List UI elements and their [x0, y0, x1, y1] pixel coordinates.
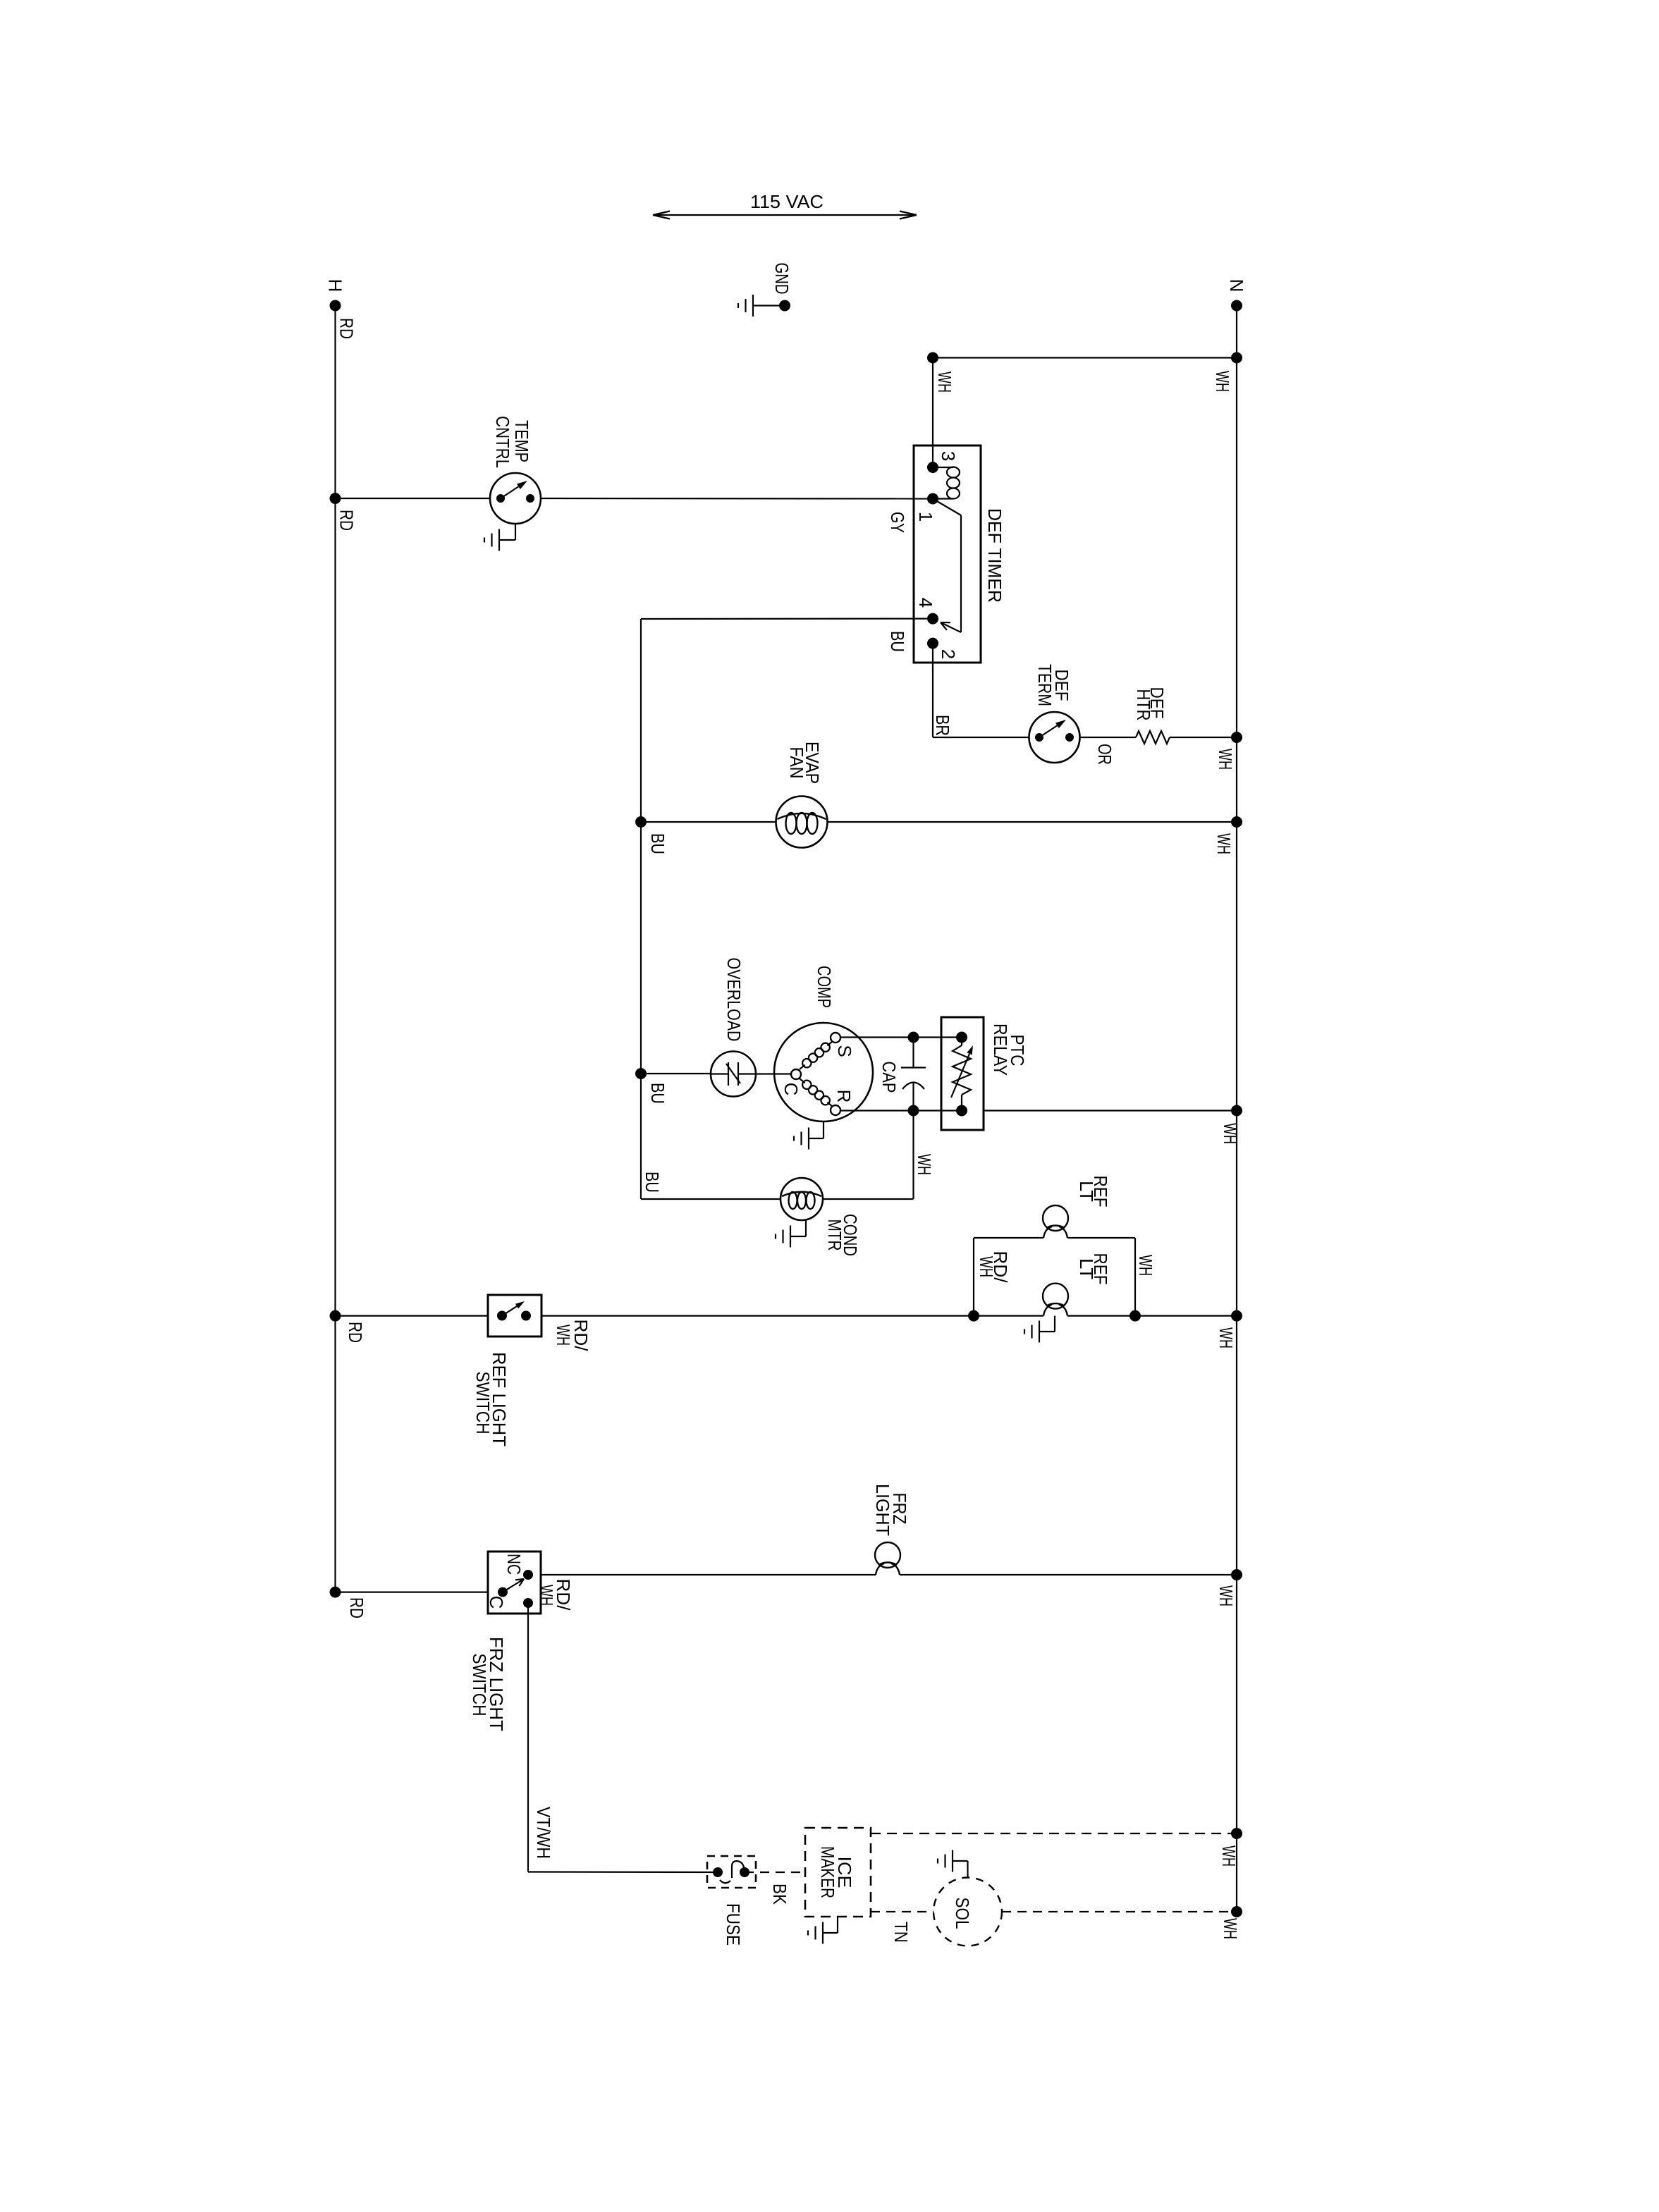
label VT/WH — [533, 1807, 554, 1859]
svg-text:BU: BU — [887, 631, 908, 652]
wire frz switch drop VT/WH — [528, 1603, 718, 1872]
wire H to temp control — [336, 498, 491, 499]
wire temp control to def timer — [541, 498, 933, 500]
svg-text:3: 3 — [938, 451, 959, 461]
wire ice maker to sol — [871, 1911, 933, 1912]
svg-text:WH: WH — [1212, 371, 1233, 392]
ref light switch box REF LIGHT SWITCH — [488, 1295, 541, 1337]
wire sol to N — [1002, 1911, 1237, 1912]
node BU comp-tap — [635, 1068, 647, 1079]
svg-text:DEF TIMER: DEF TIMER — [984, 508, 1005, 603]
svg-text:WH: WH — [1216, 1327, 1237, 1348]
svg-text:WH: WH — [1220, 1918, 1241, 1939]
thermostat DEF TERM — [1029, 712, 1080, 763]
svg-text:OVERLOAD: OVERLOAD — [723, 958, 745, 1042]
label BU evap — [647, 833, 668, 854]
wire H to frz switch — [336, 1592, 489, 1593]
svg-text:MTR: MTR — [824, 1219, 845, 1251]
node BU evap-tap — [635, 816, 647, 828]
svg-text:WH: WH — [1216, 1585, 1237, 1606]
node cap top — [908, 1032, 919, 1043]
ptc pin bottom — [956, 1105, 967, 1117]
wire ref lamp ground stem — [1039, 1316, 1055, 1332]
ptc pin top — [956, 1032, 967, 1043]
wire def htr to N — [1170, 737, 1237, 738]
label TEMP CNTRL — [492, 416, 532, 468]
wire pin2 to def term — [933, 737, 1029, 738]
label WH ref-loop — [1135, 1255, 1156, 1276]
svg-text:RD: RD — [346, 1597, 367, 1618]
node cap bottom — [908, 1105, 919, 1117]
label C — [780, 1083, 802, 1096]
node ref loop right — [1130, 1310, 1141, 1322]
pin 1 DEF TIMER — [915, 493, 938, 522]
ptc relay box PTC RELAY — [941, 1017, 984, 1130]
label REF LT top — [1076, 1176, 1111, 1208]
pin 4 DEF TIMER — [915, 598, 938, 625]
label WH ref-N — [1216, 1327, 1237, 1348]
svg-text:N: N — [1226, 279, 1247, 293]
svg-text:OR: OR — [1094, 744, 1115, 765]
ground COMP — [794, 1128, 809, 1150]
label BU cond — [642, 1172, 663, 1193]
label BU pin4 — [887, 631, 908, 652]
wire frz switch to lamp — [541, 1574, 876, 1575]
label DEF TERM — [1034, 664, 1072, 706]
svg-text:CAP: CAP — [879, 1062, 900, 1093]
label RD ref-tap — [345, 1322, 366, 1343]
svg-text:TN: TN — [890, 1922, 912, 1943]
timer motor coil — [938, 467, 960, 499]
node H ref-tap — [330, 1310, 341, 1322]
label OR — [1094, 744, 1115, 765]
label WH ice-top — [1218, 1845, 1239, 1867]
lamp FRZ LIGHT — [875, 1542, 900, 1575]
wire pin3 riser — [932, 358, 933, 468]
svg-text:HTR: HTR — [1133, 689, 1154, 721]
wire cond mtr ground stem — [790, 1219, 806, 1236]
ground TEMP CNTRL — [484, 529, 499, 551]
wire ref loop to N — [1135, 1315, 1237, 1316]
label COND MTR — [824, 1214, 861, 1256]
svg-text:BR: BR — [932, 715, 953, 736]
label 115 VAC — [750, 191, 824, 212]
wire sol ground stem — [953, 1861, 968, 1878]
label WH def-htr — [1215, 749, 1236, 770]
label N — [1226, 279, 1247, 293]
wire def term to def htr — [1080, 737, 1137, 738]
label RD/WH frz — [536, 1579, 574, 1611]
node N top — [1231, 300, 1242, 312]
label WH feeder-left — [934, 371, 955, 393]
svg-text:WH: WH — [934, 371, 955, 393]
wire ice maker ground stem — [823, 1917, 838, 1933]
wire pin2 drop — [932, 644, 933, 737]
svg-text:WH: WH — [976, 1256, 997, 1277]
label BR — [932, 715, 953, 736]
svg-text:RD: RD — [336, 318, 357, 339]
svg-text:WH: WH — [1220, 1123, 1241, 1144]
label PTC RELAY — [990, 1024, 1028, 1076]
node feeder right — [1231, 352, 1242, 364]
lamp REF LT bottom — [1043, 1284, 1068, 1316]
svg-text:FUSE: FUSE — [723, 1903, 744, 1946]
label WH cond-riser — [914, 1154, 935, 1175]
label NC — [503, 1554, 525, 1575]
thermistor PTC — [951, 1038, 973, 1111]
svg-text:RELAY: RELAY — [990, 1024, 1011, 1076]
label WH frz-N — [1216, 1585, 1237, 1606]
svg-text:SOL: SOL — [952, 1898, 973, 1929]
wire cond mtr to riser — [823, 1198, 914, 1200]
wire ref switch to lamp loop — [541, 1315, 974, 1316]
wire cap node to ptc bottom — [914, 1110, 962, 1111]
ice maker box ICE MAKER — [805, 1828, 871, 1917]
node N ptc — [1231, 1105, 1242, 1117]
svg-text:WH: WH — [1218, 1845, 1239, 1867]
ground SOL — [938, 1850, 953, 1872]
label GND — [771, 263, 792, 295]
svg-text:C: C — [486, 1596, 507, 1609]
wire comp ground stem — [809, 1122, 824, 1138]
motor EVAP FAN — [776, 797, 828, 848]
label ICE MAKER — [817, 1846, 855, 1898]
svg-text:GND: GND — [771, 263, 792, 295]
wire N bus — [1236, 306, 1237, 1912]
node GND — [779, 300, 790, 312]
wire cond riser WH — [912, 1111, 914, 1200]
node N sol — [1231, 1906, 1242, 1917]
frz light switch box FRZ LIGHT SWITCH — [488, 1552, 541, 1614]
wire ref loop top left — [974, 1237, 1043, 1239]
label H — [325, 279, 346, 293]
solenoid SOL — [933, 1878, 1002, 1946]
svg-text:WH: WH — [1213, 833, 1235, 854]
ground ICE MAKER — [808, 1922, 823, 1944]
capacitor CAP — [901, 1038, 926, 1111]
node N evap — [1231, 816, 1242, 828]
wire ref loop top right — [1067, 1237, 1135, 1239]
svg-text:TEMP: TEMP — [511, 420, 532, 462]
node N frz — [1231, 1569, 1242, 1580]
svg-text:BU: BU — [647, 1083, 668, 1104]
svg-text:LIGHT: LIGHT — [872, 1484, 893, 1536]
wire top feeder — [933, 357, 1237, 358]
wire BU to evap fan — [641, 821, 776, 823]
label RD frz-tap — [346, 1597, 367, 1618]
def timer box DEF TIMER — [914, 446, 981, 663]
label BK — [769, 1884, 790, 1905]
svg-text:2: 2 — [938, 649, 959, 659]
svg-text:SWITCH: SWITCH — [469, 1654, 490, 1716]
svg-text:BU: BU — [647, 833, 668, 854]
label TN — [890, 1922, 912, 1943]
svg-text:BK: BK — [769, 1884, 790, 1905]
svg-text:COMP: COMP — [814, 966, 835, 1008]
node H frz-tap — [330, 1587, 341, 1598]
wire ref loop bottom right — [1067, 1315, 1135, 1316]
label WH evap — [1213, 833, 1235, 854]
svg-text:LT: LT — [1076, 1181, 1097, 1202]
label WH sol — [1220, 1918, 1241, 1939]
svg-text:MAKER: MAKER — [817, 1846, 838, 1898]
svg-text:WH: WH — [1135, 1255, 1156, 1276]
wire temp ground stem — [499, 524, 515, 540]
wire H bus — [334, 306, 336, 1592]
svg-text:WH: WH — [1215, 749, 1236, 770]
svg-text:WH: WH — [536, 1585, 557, 1606]
wire BU to overload — [641, 1073, 711, 1074]
fuse element FUSE — [713, 1861, 749, 1883]
label RD/WH ref — [553, 1320, 592, 1352]
label C frz — [486, 1596, 507, 1609]
resistor DEF HTR — [1136, 731, 1170, 744]
svg-text:CNTRL: CNTRL — [492, 416, 513, 468]
label RD H-top — [336, 318, 357, 339]
node N ref — [1231, 1310, 1242, 1322]
svg-text:WH: WH — [914, 1154, 935, 1175]
ground REF LT — [1024, 1321, 1039, 1343]
node N def-htr — [1231, 732, 1242, 743]
wire overload to comp — [756, 1073, 791, 1074]
svg-text:C: C — [780, 1083, 802, 1096]
wire ref loop bottom left — [974, 1315, 1043, 1316]
label WH feeder-right — [1212, 371, 1233, 392]
label WH ptc — [1220, 1123, 1241, 1144]
label FRZ LIGHT SWITCH — [469, 1637, 507, 1731]
label R — [833, 1090, 855, 1103]
thermostat TEMP CNTRL — [490, 473, 541, 524]
node N ice-top — [1231, 1828, 1242, 1839]
fuse box FUSE — [707, 1856, 756, 1888]
ground COND MTR — [776, 1226, 790, 1248]
wire S to cap node — [840, 1036, 914, 1038]
wire evap fan to N — [828, 821, 1237, 823]
node ref loop left — [968, 1310, 979, 1322]
wire ref loop right riser — [1134, 1238, 1136, 1316]
label BU comp — [647, 1083, 668, 1104]
wire ref loop left riser — [973, 1238, 974, 1316]
switch contacts FRZ LIGHT SWITCH — [498, 1570, 533, 1608]
svg-text:WH: WH — [553, 1325, 574, 1346]
label RD/WH ref-loop — [976, 1251, 1011, 1284]
wire H to ref switch — [336, 1315, 489, 1316]
compressor COMP — [774, 1023, 873, 1122]
svg-text:BU: BU — [642, 1172, 663, 1193]
timer switch arm — [933, 499, 961, 633]
node H temp-tap — [330, 493, 341, 504]
label COMP — [814, 966, 835, 1008]
wire frz lamp to N — [900, 1574, 1237, 1575]
label REF LT bottom — [1076, 1253, 1111, 1285]
label GY — [887, 512, 908, 533]
svg-text:TERM: TERM — [1034, 664, 1055, 706]
label DEF HTR — [1133, 687, 1168, 721]
lamp REF LT top — [1043, 1205, 1068, 1238]
wire BU corner to cond mtr — [641, 1198, 780, 1200]
switch contacts REF LIGHT SWITCH — [497, 1301, 531, 1321]
svg-text:R: R — [833, 1090, 855, 1103]
svg-text:LT: LT — [1076, 1258, 1097, 1279]
svg-text:FAN: FAN — [786, 747, 807, 779]
wire fuse to ice maker — [745, 1872, 805, 1873]
wire cap node to ptc top — [914, 1036, 962, 1038]
svg-text:VT/WH: VT/WH — [533, 1807, 554, 1859]
wire R to cap node — [840, 1110, 914, 1111]
dimension arrow 115 VAC span — [653, 211, 917, 219]
motor COND MTR — [780, 1178, 823, 1220]
wire ptc to N — [984, 1110, 1237, 1111]
label FRZ LIGHT — [872, 1484, 910, 1536]
node feeder left — [927, 352, 938, 364]
label S — [834, 1045, 855, 1057]
label REF LIGHT SWITCH — [472, 1352, 510, 1446]
label SOL — [952, 1898, 973, 1929]
label OVERLOAD — [723, 958, 745, 1042]
svg-text:GY: GY — [887, 512, 908, 533]
svg-text:RD: RD — [336, 510, 357, 531]
wire BU bus — [640, 619, 642, 1199]
svg-text:4: 4 — [915, 598, 936, 608]
svg-text:1: 1 — [915, 512, 936, 522]
pin 3 DEF TIMER — [927, 451, 959, 473]
label DEF TIMER — [984, 508, 1005, 603]
overload protector OVERLOAD — [711, 1052, 756, 1097]
ground GND — [738, 295, 753, 317]
pin 2 DEF TIMER — [927, 638, 959, 660]
node H top — [330, 300, 341, 312]
label RD temp-tap — [336, 510, 357, 531]
svg-text:RD: RD — [345, 1322, 366, 1343]
svg-text:S: S — [834, 1045, 855, 1057]
wire GND stem — [753, 305, 785, 306]
label EVAP FAN — [786, 742, 823, 784]
label FUSE — [723, 1903, 744, 1946]
svg-text:H: H — [325, 279, 346, 293]
wire ice maker top to N — [871, 1833, 1237, 1834]
svg-text:SWITCH: SWITCH — [472, 1372, 494, 1434]
svg-text:NC: NC — [503, 1554, 525, 1575]
label CAP — [879, 1062, 900, 1093]
svg-text:115 VAC: 115 VAC — [750, 191, 824, 212]
wire pin4 to BU bus — [641, 617, 933, 620]
